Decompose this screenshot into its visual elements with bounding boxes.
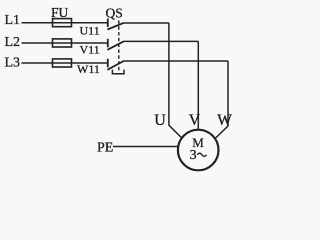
svg-text:W11: W11: [77, 62, 100, 76]
svg-text:L1: L1: [5, 13, 21, 28]
svg-text:L2: L2: [5, 35, 21, 50]
svg-text:3: 3: [190, 148, 197, 163]
svg-text:W: W: [217, 112, 232, 129]
svg-text:FU: FU: [51, 5, 69, 20]
svg-text:V11: V11: [80, 42, 100, 56]
svg-text:PE: PE: [97, 141, 113, 156]
svg-text:V: V: [189, 112, 201, 129]
svg-text:QS: QS: [106, 6, 123, 21]
svg-text:L3: L3: [5, 56, 21, 71]
svg-text:U: U: [154, 112, 166, 129]
svg-text:U11: U11: [80, 24, 100, 38]
